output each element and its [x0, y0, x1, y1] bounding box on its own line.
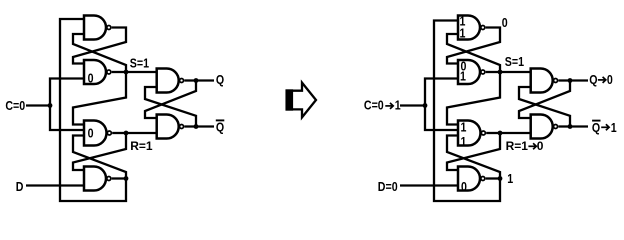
svg-text:Q: Q: [216, 120, 224, 135]
svg-text:1: 1: [460, 119, 466, 134]
svg-text:S=1: S=1: [130, 55, 150, 70]
svg-text:0: 0: [607, 72, 613, 87]
svg-text:0: 0: [461, 179, 467, 194]
svg-text:1: 1: [395, 97, 401, 112]
svg-text:Q: Q: [216, 72, 224, 87]
svg-text:D=0: D=0: [378, 179, 398, 194]
svg-text:0: 0: [502, 15, 508, 30]
svg-text:C=0: C=0: [364, 97, 384, 112]
svg-text:1: 1: [460, 134, 466, 149]
svg-text:R=1: R=1: [130, 139, 153, 153]
svg-text:Q: Q: [589, 72, 597, 87]
svg-text:0: 0: [537, 139, 544, 153]
svg-text:1: 1: [507, 171, 513, 186]
svg-text:1: 1: [460, 69, 466, 84]
svg-text:0: 0: [88, 125, 94, 140]
svg-text:D: D: [16, 179, 24, 194]
svg-text:C=0: C=0: [5, 98, 25, 113]
svg-text:1: 1: [611, 120, 617, 135]
svg-text:0: 0: [88, 70, 94, 85]
svg-text:1: 1: [460, 25, 466, 40]
svg-text:Q: Q: [592, 120, 600, 135]
svg-text:S=1: S=1: [505, 54, 525, 69]
svg-text:R=1: R=1: [506, 139, 529, 153]
